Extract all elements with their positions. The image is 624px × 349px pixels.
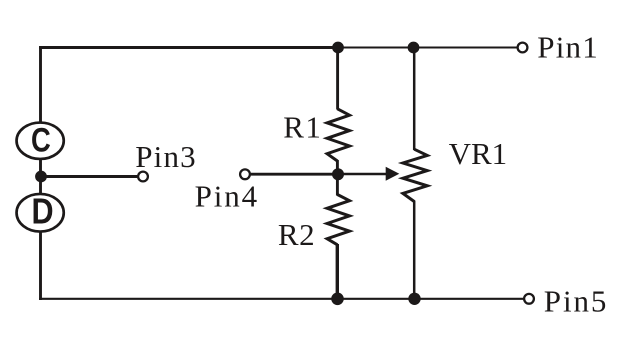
svg-text:Pin4: Pin4 <box>195 179 259 214</box>
resistor R2 <box>327 195 349 245</box>
label R2 <box>278 217 315 252</box>
wire left vertical middle <box>39 160 42 194</box>
wire left vertical upper <box>39 46 42 122</box>
wire Pin4 horizontal <box>251 173 338 176</box>
label R1 <box>283 109 322 144</box>
node junction top wire / VR column <box>408 42 420 54</box>
svg-text:Pin1: Pin1 <box>537 29 599 64</box>
label Pin5 <box>544 283 608 318</box>
terminal Pin1 <box>518 43 528 53</box>
wire R2 bottom vertical <box>336 244 339 300</box>
label VR1 <box>449 136 508 171</box>
photodevice C <box>17 121 64 159</box>
label Pin4 <box>195 179 259 214</box>
wire bottom horizontal <box>39 298 523 300</box>
node junction bottom wire / VR column <box>408 293 420 305</box>
wire left vertical lower <box>39 233 42 301</box>
svg-text:Pin3: Pin3 <box>135 139 197 174</box>
label Pin1 <box>537 29 599 64</box>
potentiometer VR1 <box>403 149 427 201</box>
svg-text:R2: R2 <box>278 217 315 252</box>
terminal Pin4 <box>240 169 250 179</box>
wiper arrow to VR1 <box>338 167 399 181</box>
wire R2 top vertical <box>336 174 339 196</box>
svg-text:VR1: VR1 <box>449 136 508 171</box>
label Pin3 <box>135 139 197 174</box>
svg-text:D: D <box>31 192 53 232</box>
wire R1 top vertical <box>336 46 339 109</box>
photodevice D <box>17 192 64 232</box>
node junction top wire / R column <box>332 42 344 54</box>
wire VR1 bottom vertical <box>413 201 416 300</box>
svg-text:R1: R1 <box>283 109 322 144</box>
node junction left (between C and D) <box>35 171 47 183</box>
resistor R1 <box>327 109 349 161</box>
wire R1 bottom vertical <box>336 160 339 176</box>
node junction middle <box>332 168 344 180</box>
wire VR1 top vertical <box>413 46 416 150</box>
terminal Pin3 <box>138 172 148 182</box>
svg-text:C: C <box>31 121 51 159</box>
svg-text:Pin5: Pin5 <box>544 283 608 318</box>
terminal Pin5 <box>524 294 534 304</box>
wire top horizontal right part <box>338 47 517 49</box>
wire Pin3 horizontal <box>41 175 137 178</box>
node junction bottom wire / R column <box>331 293 344 306</box>
wire top horizontal <box>39 46 338 49</box>
